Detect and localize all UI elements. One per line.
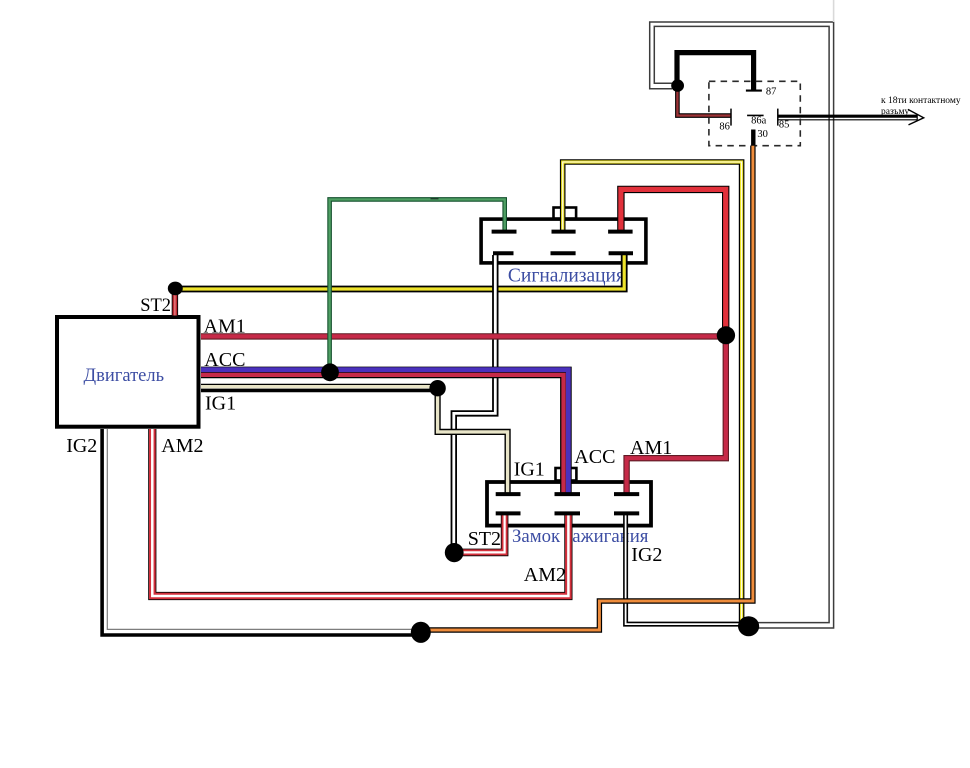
alarm box notch [554, 208, 577, 219]
svg-text:AM2: AM2 [524, 564, 566, 586]
node bottom left [411, 622, 431, 643]
alarm box Сигнализация [481, 219, 646, 263]
svg-text:AM1: AM1 [204, 316, 246, 338]
wire black IG2 from engine bottom to bottom left node [102, 429, 421, 635]
svg-text:IG2: IG2 [631, 544, 662, 566]
wire red AM2 loop from engine bottom to ignition AM2 pin [152, 429, 568, 596]
node at relay junction [671, 79, 684, 91]
node ST2 top [168, 282, 183, 296]
relay pin 87 bar [746, 90, 762, 92]
wire red ST2 from ignition bottom left pin to ST2 ignition node [455, 515, 505, 552]
wire green from ACC node to alarm left pin [330, 199, 505, 372]
wire thick black from relay node to pin 87 [677, 53, 754, 90]
svg-text:87: 87 [766, 87, 777, 98]
wire crimson AM1 from engine to node [201, 333, 726, 339]
wire yellow from alarm notch up over to right side down to bottom right node [563, 162, 742, 624]
ignition terminal bars [496, 494, 640, 513]
ignition box notch [556, 468, 577, 481]
wire yellow from alarm bottom right pin to ST2 node [176, 255, 624, 289]
svg-text:86: 86 [719, 121, 730, 132]
wire black IG2 from ignition bottom right pin to bottom right node [626, 515, 740, 624]
svg-text:Замок зажигания: Замок зажигания [512, 526, 649, 547]
arrow line from pin 85 to 18-pin connector [778, 109, 924, 125]
relay pin 85 tick [777, 109, 779, 126]
wire gray hollow outer run: top loop to relay and right side down to bottom node [650, 0, 834, 628]
svg-text:ACC: ACC [574, 446, 615, 468]
relay pin 86 tick [730, 109, 732, 126]
svg-text:IG2: IG2 [66, 435, 97, 457]
svg-text:AM2: AM2 [161, 435, 203, 457]
svg-text:IG1: IG1 [514, 458, 545, 480]
svg-text:ACC: ACC [204, 349, 245, 371]
engine box Двигатель [57, 317, 199, 427]
node IG1 [429, 380, 445, 396]
svg-text:30: 30 [757, 129, 768, 140]
wire black hollow from alarm bottom left pin down to ST2 ignition node [454, 255, 496, 551]
relay pin 86a bar [747, 114, 764, 116]
wire bright red from alarm right pin up and down to AM1 node [621, 189, 726, 334]
relay dashed body [709, 81, 800, 145]
svg-text:разъму: разъму [881, 107, 909, 117]
svg-text:AM1: AM1 [630, 437, 672, 459]
svg-text:85: 85 [779, 119, 790, 130]
svg-text:Двигатель: Двигатель [84, 366, 165, 386]
svg-text:IG1: IG1 [205, 392, 236, 414]
node bottom right [738, 616, 759, 636]
wire crimson from AM1 node down to ignition AM1 pin [627, 335, 726, 493]
node ST2 ignition [445, 543, 464, 562]
ignition lock box Замок зажигания [487, 482, 651, 526]
wire red ST2 from node to engine top [172, 288, 178, 316]
wire ACC blue over red from engine to ignition ACC pin [201, 370, 568, 493]
wire IG1 khaki band from engine to IG1 node [201, 384, 436, 390]
alarm terminal bars [492, 232, 633, 254]
wire khaki zigzag from IG1 node to ignition IG1 pin [438, 390, 508, 493]
svg-text:86a: 86a [751, 116, 767, 127]
relay pin 30 stub [751, 130, 755, 146]
svg-text:ST2: ST2 [468, 528, 501, 550]
node ACC green [321, 363, 339, 381]
wire orange from relay pin 30 down to bottom left node [422, 146, 753, 630]
node AM1 [717, 326, 735, 344]
svg-text:ST2: ST2 [140, 296, 171, 316]
svg-text:Сигнализация: Сигнализация [508, 266, 625, 287]
wire dark red from relay node to pin 86 [677, 88, 731, 116]
tiny mark on green wire [431, 198, 439, 200]
svg-text:к 18ти контактному: к 18ти контактному [881, 96, 961, 106]
